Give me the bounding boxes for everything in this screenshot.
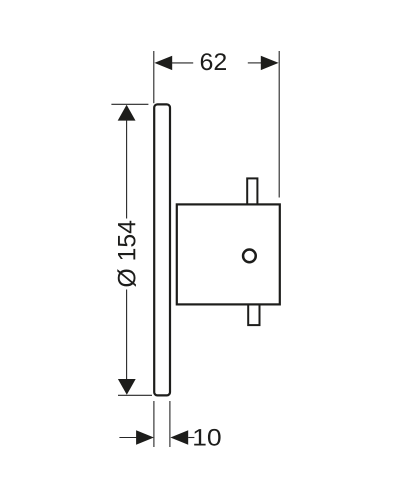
dim154 upper line segment xyxy=(126,120,128,219)
dim62 left arrow xyxy=(154,56,172,70)
dim62 right extension line xyxy=(278,51,280,198)
dim10 label "10" xyxy=(194,429,220,446)
dim10 left arrow xyxy=(136,430,154,444)
dim10 left leader line xyxy=(119,437,136,439)
dim62 label "62" xyxy=(201,53,226,70)
dim62 right arrow xyxy=(261,56,279,70)
dim154 lower line segment xyxy=(126,290,128,380)
top pin xyxy=(247,178,257,205)
valve body box xyxy=(177,204,280,304)
bottom pin xyxy=(248,304,259,326)
dim154 top extension line xyxy=(111,103,148,105)
dim10 right extension line xyxy=(169,401,171,447)
dim62 right leader line xyxy=(248,62,262,64)
dim154 label "Ø 154" (rotated) xyxy=(117,221,136,287)
dim154 top arrow xyxy=(118,105,136,121)
handle circle xyxy=(243,250,256,263)
dim154 bottom arrow xyxy=(118,379,136,395)
dim10 left extension line xyxy=(153,401,155,447)
dim10 right arrow xyxy=(170,430,188,444)
wall plate (side view) xyxy=(154,104,170,395)
dim10 right leader line xyxy=(188,437,194,439)
dim62 left leader line xyxy=(172,62,194,64)
dim154 bottom extension line xyxy=(118,394,152,396)
dim62 left extension line xyxy=(153,51,155,103)
